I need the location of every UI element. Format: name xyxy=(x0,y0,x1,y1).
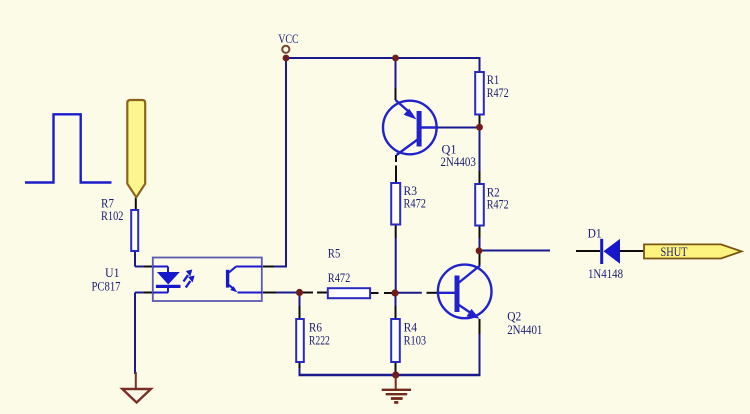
svg-text:1N4148: 1N4148 xyxy=(588,267,623,281)
svg-text:2N4401: 2N4401 xyxy=(507,323,542,337)
svg-text:U1: U1 xyxy=(105,266,120,280)
svg-text:R102: R102 xyxy=(101,209,124,223)
svg-text:SHUT: SHUT xyxy=(661,245,688,259)
svg-text:R222: R222 xyxy=(309,333,330,347)
svg-text:PC817: PC817 xyxy=(92,280,121,294)
svg-text:D1: D1 xyxy=(588,227,602,241)
svg-text:R472: R472 xyxy=(487,86,509,100)
svg-text:2N4403: 2N4403 xyxy=(440,155,476,169)
svg-text:R5: R5 xyxy=(328,247,341,261)
svg-text:R472: R472 xyxy=(487,198,509,212)
svg-text:R103: R103 xyxy=(404,333,427,347)
svg-text:Q2: Q2 xyxy=(507,310,521,324)
svg-text:R472: R472 xyxy=(328,271,351,285)
svg-text:R1: R1 xyxy=(487,73,500,87)
svg-text:VCC: VCC xyxy=(278,32,299,46)
svg-text:R472: R472 xyxy=(404,197,427,211)
